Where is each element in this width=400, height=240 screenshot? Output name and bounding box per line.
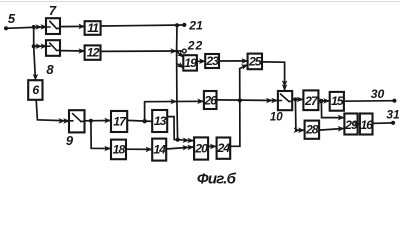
switch block 10 <box>278 91 292 110</box>
svg-text:13: 13 <box>154 114 167 128</box>
svg-text:25: 25 <box>248 54 262 68</box>
arrow tick on 26 line at vertical <box>170 99 177 105</box>
block 11 <box>85 21 101 35</box>
svg-text:20: 20 <box>194 141 208 155</box>
block 20 <box>194 137 208 159</box>
wire riser from node D to 25 lower input <box>240 65 248 101</box>
wire 11 to terminal 21 <box>101 25 184 26</box>
terminal dot 31 <box>391 121 395 125</box>
terminal dot 30 <box>392 99 396 103</box>
wire into block 8 <box>34 45 46 47</box>
wire node B down to block 6 <box>34 46 36 77</box>
wire 23 to 25 <box>219 60 247 62</box>
wire 24 riser to node D <box>230 100 240 146</box>
arrow into 8 (double) <box>35 43 42 49</box>
arrow into 20 upper (double) <box>182 137 189 143</box>
block 12 <box>85 45 101 59</box>
block 19 <box>183 55 197 70</box>
arrow into 25 lower <box>241 62 249 70</box>
block 27 <box>303 90 318 110</box>
wire 26 to 10 <box>217 99 278 102</box>
wire input 5 to block 7 <box>6 27 46 28</box>
switch symbol in 7 <box>46 26 50 28</box>
wire 17 to 13 <box>127 120 152 121</box>
block 15 <box>330 92 344 111</box>
arrow into 25 upper <box>241 58 248 64</box>
terminal circle 22 <box>182 49 186 53</box>
svg-text:16: 16 <box>360 118 373 132</box>
block 25 <box>248 54 262 70</box>
wire 19 to 23 <box>197 60 205 62</box>
wire 28 to 29 lower input <box>319 129 344 131</box>
wire 25 to 10 top <box>262 62 285 91</box>
block 13 <box>152 110 167 132</box>
wire 12 to terminal 22 <box>101 50 183 52</box>
svg-text:31: 31 <box>386 108 400 122</box>
block 29 <box>344 114 357 135</box>
svg-text:30: 30 <box>371 87 385 101</box>
arrow into 15 (double) <box>319 98 326 104</box>
wire block 6 to block 9 <box>36 100 68 121</box>
wire 16 to terminal 31 <box>373 122 394 125</box>
block 6 <box>28 80 42 100</box>
arrow into 19 upper <box>177 51 186 60</box>
wire 10 to 27 <box>292 98 303 100</box>
wire to 26 input <box>145 100 204 102</box>
wire tap into 19 lower <box>177 64 183 68</box>
node B <box>32 44 36 48</box>
node E 20-input <box>176 138 180 142</box>
wire 7 to 11 <box>60 25 84 27</box>
svg-text:14: 14 <box>153 143 166 157</box>
block 16 <box>360 114 373 135</box>
svg-text:8: 8 <box>46 62 54 77</box>
block 26 <box>204 91 217 109</box>
arrow into 29 upper <box>338 115 345 121</box>
svg-text:18: 18 <box>113 142 126 156</box>
wire vertical from node A down to 8-line <box>33 27 35 46</box>
wire 18 to 14 <box>126 148 152 150</box>
block 18 <box>111 140 126 160</box>
node 17-13 <box>143 119 147 123</box>
wire 9 to 17 <box>85 120 111 122</box>
svg-text:29: 29 <box>344 118 358 132</box>
arrow into 12 <box>78 48 85 54</box>
wire 14 to 20 lower input <box>166 147 193 149</box>
wire tap into 19 upper <box>177 52 183 57</box>
arrow into 19 lower <box>177 62 186 70</box>
block 24 <box>217 138 231 159</box>
arrow into 18 <box>104 146 111 152</box>
block 14 <box>152 139 166 161</box>
scan edge line <box>0 1 400 3</box>
node on 22 line <box>175 50 178 53</box>
arrow into 16 <box>353 121 360 127</box>
switch symbol in 8 <box>46 45 50 47</box>
wire 27 to 15 <box>318 100 329 102</box>
wire branch down to 28 <box>295 99 303 130</box>
svg-text:22: 22 <box>187 38 204 52</box>
wire 29 to 16 <box>358 123 360 125</box>
arrow into 28 (double) <box>294 127 301 133</box>
wire branch down to 18 <box>91 121 111 149</box>
arrow into 17 <box>104 118 111 124</box>
terminal dot 21 <box>182 23 186 27</box>
svg-text:28: 28 <box>305 123 319 137</box>
svg-text:12: 12 <box>87 45 100 59</box>
node at 21 line <box>175 23 179 27</box>
node D on 26-10 line <box>238 98 242 102</box>
svg-text:5: 5 <box>8 11 16 26</box>
wire riser from 17-13 junction <box>144 102 146 122</box>
arrow into 14 <box>146 147 153 153</box>
svg-text:19: 19 <box>184 56 197 70</box>
svg-text:15: 15 <box>331 94 344 108</box>
svg-text:10: 10 <box>270 112 283 124</box>
block 28 <box>305 121 320 139</box>
wire 15 to terminal 30 <box>344 100 394 103</box>
node 27-output <box>319 99 323 103</box>
svg-text:7: 7 <box>49 3 57 18</box>
svg-text:26: 26 <box>203 94 217 108</box>
svg-text:11: 11 <box>87 21 99 35</box>
wire 8 to 12 <box>60 50 84 52</box>
arrow into 27 <box>297 97 304 103</box>
svg-text:9: 9 <box>66 133 74 148</box>
arrow tick on 22 line at vertical <box>170 48 177 54</box>
block 17 <box>111 111 127 132</box>
arrow into 10 left (double) <box>266 98 273 104</box>
switch block 8 <box>46 40 60 56</box>
arrow into 20 lower (double) <box>182 144 189 150</box>
arrow into 9 (double) <box>59 118 66 124</box>
arrow into 23 <box>199 58 206 64</box>
svg-text:27: 27 <box>304 94 319 108</box>
switch block 7 <box>46 18 60 34</box>
arrow down into 10 (double) <box>282 80 288 87</box>
junction and terminal dots <box>4 23 397 142</box>
wire node F down to 29 upper input <box>321 101 344 118</box>
arrow down into 6 <box>33 74 39 81</box>
block 23 <box>205 54 219 68</box>
arrow into 11 <box>78 24 85 30</box>
wire node E to 20 upper input <box>178 140 194 141</box>
svg-text:24: 24 <box>217 141 231 155</box>
arrow into 24 <box>210 144 217 150</box>
svg-text:Фиг.б: Фиг.б <box>197 170 237 187</box>
node A <box>32 25 36 29</box>
node 10-output <box>293 97 297 101</box>
arrow into 7 (double) <box>35 24 42 30</box>
node 9-output <box>89 119 93 123</box>
svg-text:23: 23 <box>205 54 219 68</box>
switch symbol in 9 <box>69 120 73 122</box>
arrow into 26 <box>197 99 204 105</box>
arrow into 29 lower <box>338 126 345 132</box>
wire 20 to 24 <box>208 145 216 147</box>
wire 13 down to 20-input node <box>167 117 177 140</box>
terminal dot 5 <box>4 26 8 30</box>
switch symbol in 10 <box>278 100 282 102</box>
svg-text:21: 21 <box>188 18 203 32</box>
switch block 9 <box>69 110 85 132</box>
wire long vertical from node 21-junction down to 20-input node <box>177 25 178 140</box>
